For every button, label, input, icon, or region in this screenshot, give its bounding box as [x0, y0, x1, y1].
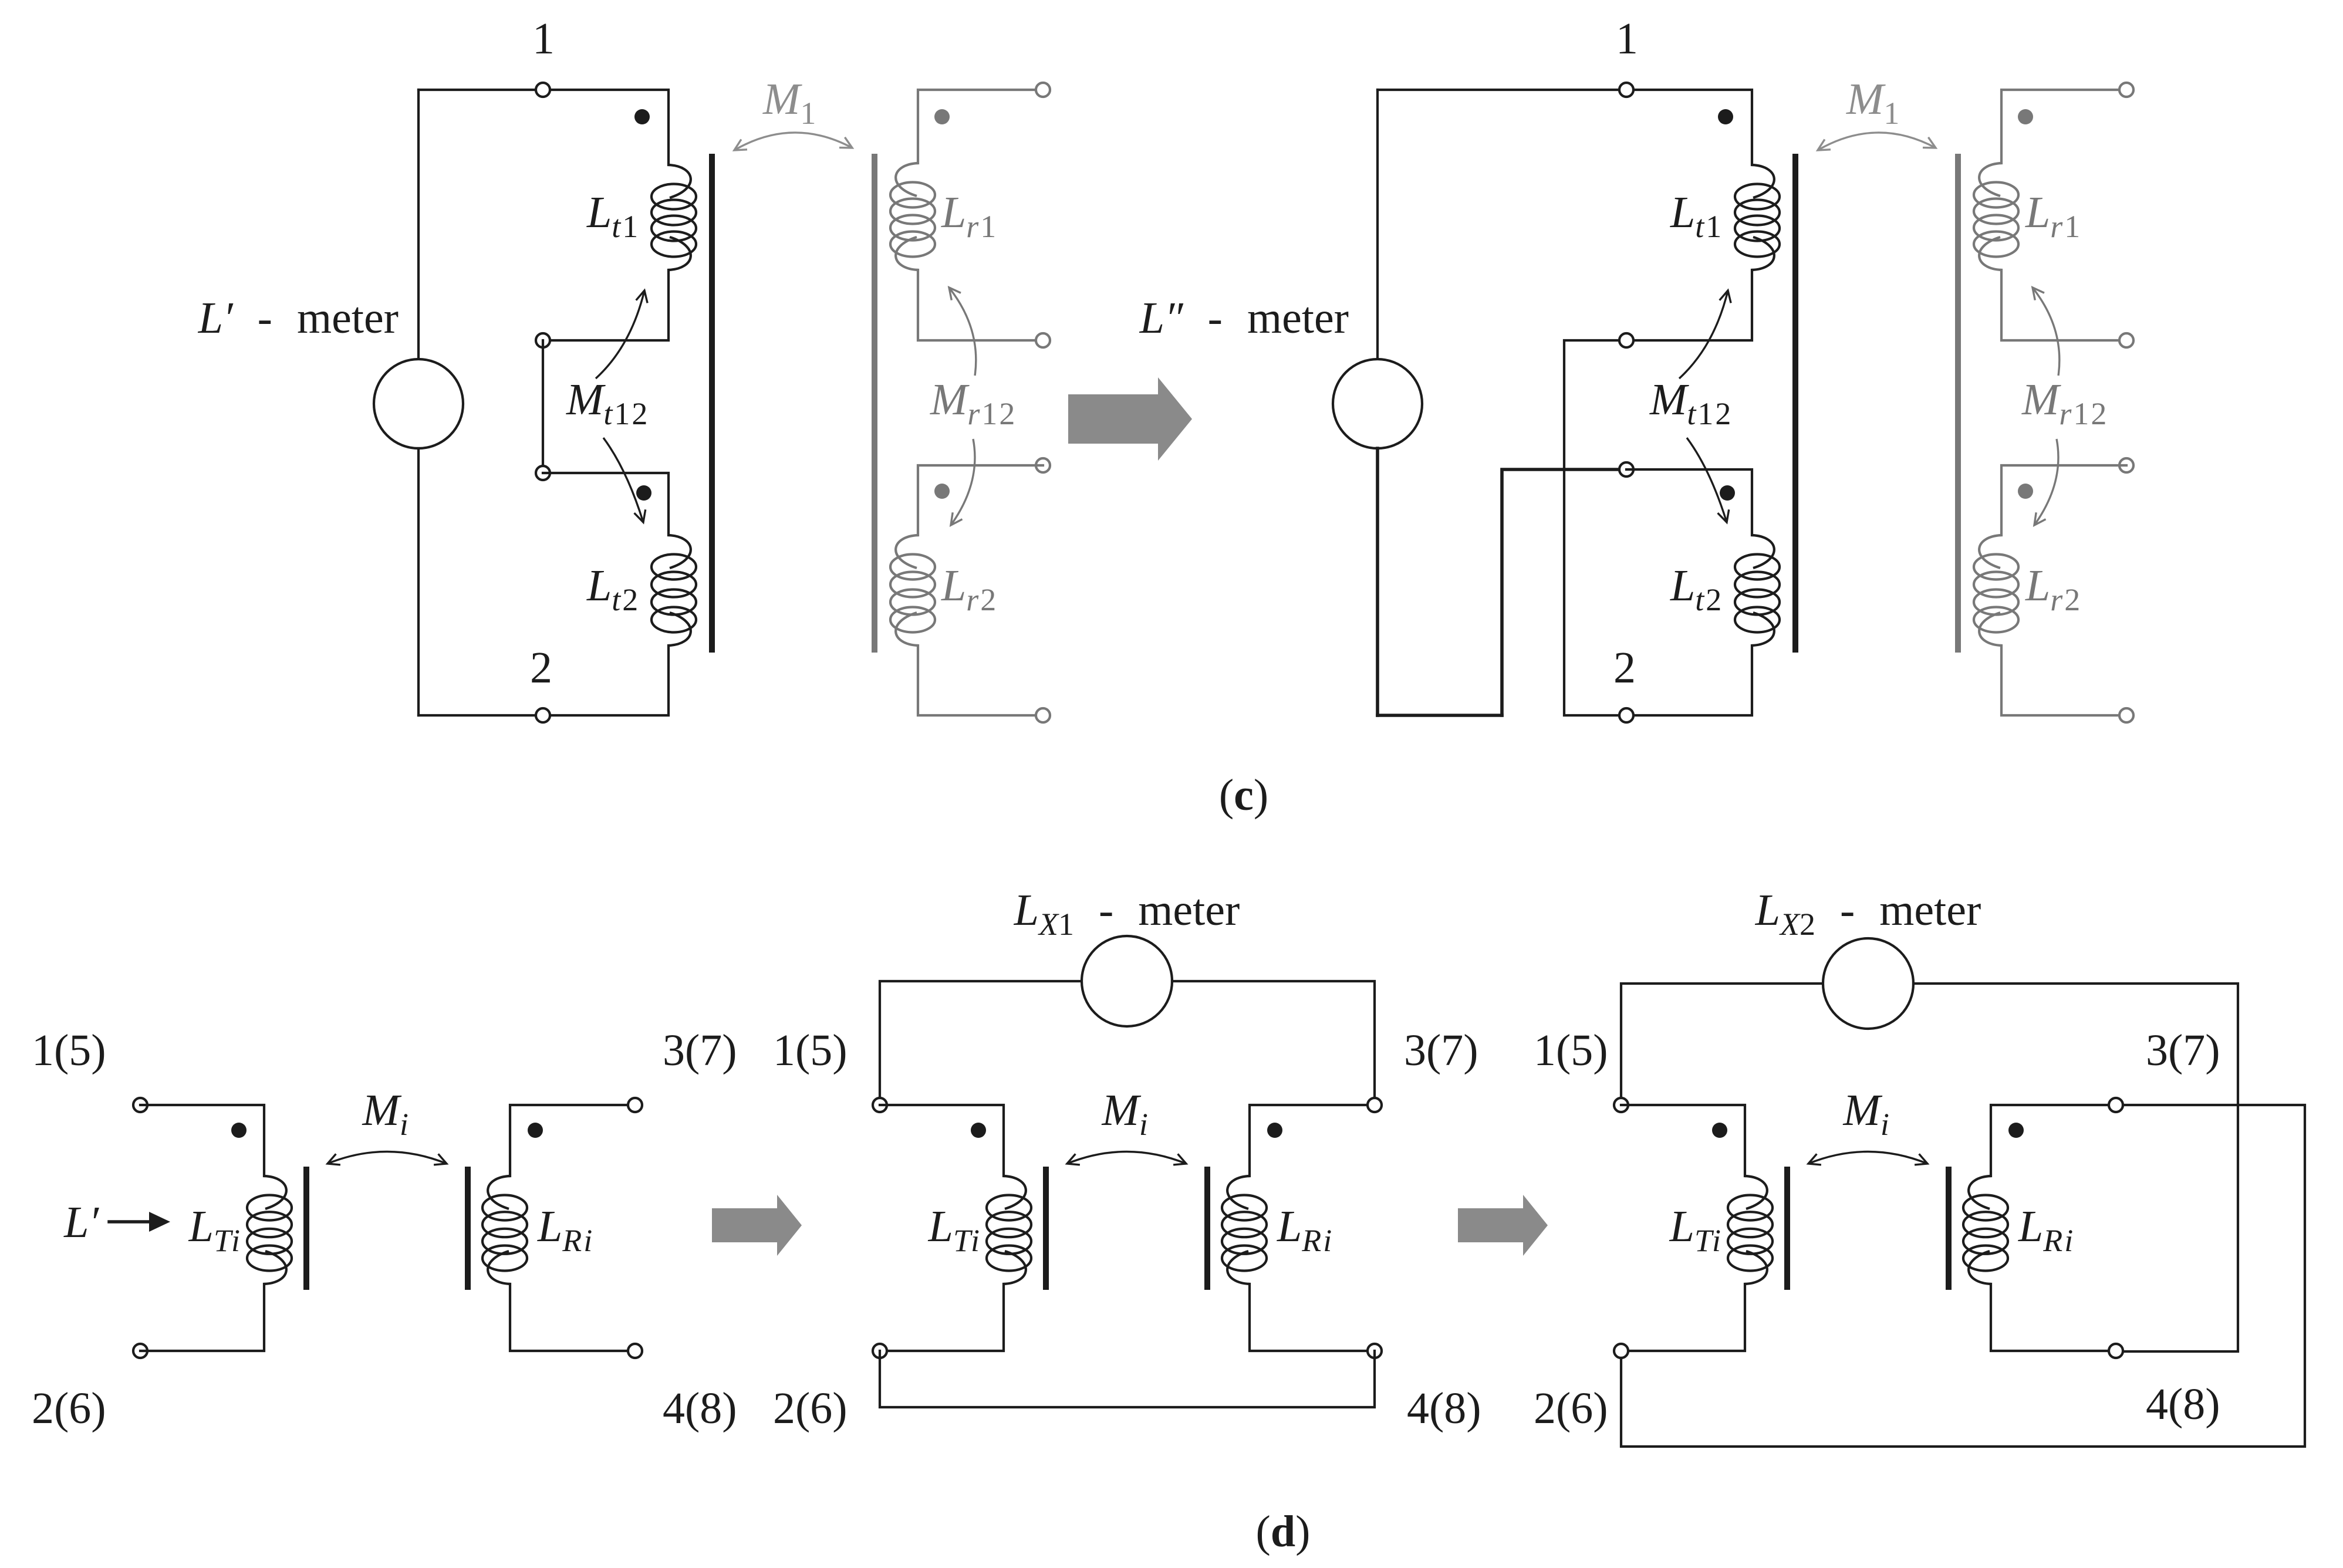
- dot Lt2 (c1): [636, 485, 651, 501]
- svg-text:2(6): 2(6): [773, 1384, 848, 1433]
- terminal 1(5) (d3): [1614, 1098, 1628, 1112]
- terminal 1 (c2): [1619, 83, 1633, 97]
- dot LTi (d2): [971, 1123, 986, 1138]
- wire d3 LRi bottom to terminal 4: [1991, 1284, 2116, 1351]
- wire c1 left meter branch upper: [417, 90, 420, 359]
- inductor LRi (d2): [1222, 1176, 1267, 1284]
- receiver terminal c (c2): [2119, 458, 2133, 472]
- wire c2 middle terminal to Lt2 top: [1626, 469, 1752, 535]
- core bar T (d1): [303, 1167, 309, 1290]
- arrow Mt12 to Lt2 (c2): [1687, 438, 1729, 522]
- wire c2 top (terminal 1 to Lt1): [1378, 90, 1752, 165]
- wire d3 LRi to terminal 3: [1991, 1105, 2116, 1176]
- core bar transmitter (c2): [1792, 154, 1798, 653]
- wire c2 left meter branch upper: [1376, 90, 1379, 359]
- core bar receiver (c1): [872, 154, 877, 653]
- dot Lt1 (c1): [634, 109, 650, 124]
- wire d2 LRi to terminal 3: [1250, 1105, 1375, 1176]
- wire c2 receiver Lr2 bottom: [2001, 646, 2126, 715]
- terminal 2(6) (d2): [873, 1344, 887, 1358]
- arrow M1 coupling (c1): [734, 133, 852, 150]
- inductor Lt2 (c1): [651, 535, 696, 646]
- dot Lr2 (c2): [2018, 484, 2033, 499]
- block arrow (d) 2: [1458, 1195, 1548, 1256]
- dot Lt1 (c2): [1718, 109, 1733, 124]
- inductor Lt1 (c2): [1735, 165, 1780, 270]
- wire d2 terminal 1 to LTi: [880, 1105, 1004, 1176]
- terminal 3(7) (d1): [628, 1098, 642, 1112]
- wire d2 meter top left: [880, 981, 1082, 1105]
- arrow L' shaft (d1): [109, 1220, 151, 1224]
- wire c1 Lt1 bottom to middle terminal: [543, 270, 669, 340]
- arrow Mi coupling (d1): [328, 1152, 447, 1165]
- terminal 1(5) (d2): [873, 1098, 887, 1112]
- terminal Lt2+ (c2): [1619, 462, 1633, 477]
- wire c1 receiver Lr2 bottom: [918, 646, 1043, 715]
- receiver terminal c (c1): [1036, 458, 1050, 472]
- wire d3 meter top right: [1913, 984, 2238, 1351]
- svg-text:2: 2: [1613, 643, 1636, 692]
- svg-text:(c): (c): [1219, 771, 1268, 820]
- core bar receiver (c2): [1955, 154, 1961, 653]
- terminal 2 (c1): [536, 708, 550, 722]
- arrow Mr12 to Lr1 (c2): [2033, 288, 2060, 376]
- inductor Lr1 (c2): [1974, 163, 2018, 270]
- wire c1 top (terminal 1 to Lt1): [418, 90, 669, 165]
- inductor Lt1 (c1): [651, 165, 696, 270]
- wire c2 Lt1 bottom to middle terminal: [1626, 270, 1752, 340]
- arrow M1 coupling (c2): [1818, 133, 1936, 150]
- dot LTi (d3): [1712, 1123, 1727, 1138]
- receiver terminal a (c2): [2119, 83, 2133, 97]
- terminal 1 (c1): [536, 83, 550, 97]
- core bar T (d2): [1043, 1167, 1049, 1290]
- wire c2 receiver Lr1 top: [2001, 90, 2126, 163]
- svg-text:1: 1: [532, 14, 555, 63]
- wire c2 middle terminal to lower-left riser: [1564, 340, 1626, 715]
- receiver terminal b (c1): [1036, 333, 1050, 347]
- arrow L' head (d1): [149, 1212, 170, 1232]
- svg-text:L′-meter: L′-meter: [198, 293, 399, 343]
- wire c2 Lt2 bottom to terminal 2: [1626, 646, 1752, 715]
- svg-text:1(5): 1(5): [773, 1026, 848, 1075]
- inductor Lr2 (c2): [1974, 535, 2018, 646]
- core bar R (d1): [465, 1167, 471, 1290]
- wire c1 middle series link: [542, 340, 544, 473]
- svg-text:4(8): 4(8): [2146, 1380, 2220, 1429]
- wire c2 receiver Lr1 bottom: [2001, 270, 2126, 340]
- wire c2 left meter branch lower (bold): [1376, 448, 1379, 715]
- dot Lt2 (c2): [1720, 485, 1735, 501]
- wire c1 middle terminal to Lt2 top: [543, 473, 669, 535]
- wire d3 crossing 3(7) to 2(6): [1621, 1105, 2305, 1447]
- wire c2 bottom left to crossing (bold): [1378, 714, 1502, 717]
- wire d3 LTi bottom to terminal 2: [1621, 1284, 1745, 1351]
- wire d2 LRi bottom to terminal 4: [1250, 1284, 1375, 1351]
- meter L' (c1): [374, 359, 463, 448]
- wire d2 LTi bottom to terminal 2: [880, 1284, 1004, 1351]
- arrow Mr12 to Lr2 (c2): [2034, 439, 2058, 525]
- dot LRi (d3): [2008, 1123, 2024, 1138]
- receiver terminal b (c2): [2119, 333, 2133, 347]
- terminal 2(6) (d1): [133, 1344, 147, 1358]
- wire d1 LRi bottom to terminal 4: [510, 1284, 635, 1351]
- wire c2 receiver Lr2 top: [2001, 465, 2126, 535]
- arrow Mt12 to Lt1 (c1): [596, 290, 647, 379]
- svg-text:3(7): 3(7): [663, 1026, 737, 1075]
- inductor Lr1 (c1): [890, 163, 935, 270]
- terminal Lt1- (c2): [1619, 333, 1633, 347]
- terminal 4(8) (d2): [1368, 1344, 1382, 1358]
- dot LRi (d2): [1267, 1123, 1282, 1138]
- svg-text:1(5): 1(5): [1534, 1026, 1608, 1075]
- wire d1 LTi bottom to terminal 2: [140, 1284, 264, 1351]
- inductor Lt2 (c2): [1735, 535, 1780, 646]
- terminal Lt1- (c1): [536, 333, 550, 347]
- svg-text:2(6): 2(6): [32, 1384, 106, 1433]
- meter LX1 (d2): [1082, 936, 1172, 1026]
- svg-text:3(7): 3(7): [2146, 1026, 2220, 1075]
- terminal 4(8) (d1): [628, 1344, 642, 1358]
- receiver terminal d (c2): [2119, 708, 2133, 722]
- wire d3 meter top left: [1621, 984, 1823, 1105]
- svg-text:L′: L′: [63, 1198, 99, 1247]
- dot Lr1 (c1): [934, 109, 950, 124]
- terminal 2 (c2): [1619, 708, 1633, 722]
- inductor LRi (d1): [482, 1176, 527, 1284]
- terminal 3(7) (d3): [2109, 1098, 2123, 1112]
- block arrow (d) 1: [712, 1195, 802, 1256]
- wire c1 receiver Lr2 top: [918, 465, 1043, 535]
- arrow Mi coupling (d2): [1067, 1152, 1186, 1165]
- wire c1 receiver Lr1 bottom: [918, 270, 1043, 340]
- dot LRi (d1): [528, 1123, 543, 1138]
- svg-text:1(5): 1(5): [32, 1026, 106, 1075]
- arrow Mt12 to Lt1 (c2): [1679, 290, 1731, 379]
- svg-text:4(8): 4(8): [663, 1384, 737, 1433]
- core bar R (d3): [1946, 1167, 1952, 1290]
- arrow Mr12 to Lr2 (c1): [951, 439, 975, 525]
- meter L'' (c2): [1333, 359, 1422, 448]
- wire c2 crossing riser (bold): [1502, 469, 1619, 715]
- dot LTi (d1): [231, 1123, 247, 1138]
- inductor LTi (d2): [987, 1176, 1031, 1284]
- block arrow (c): [1068, 377, 1192, 461]
- wire d3 terminal 1 to LTi: [1621, 1105, 1745, 1176]
- core bar transmitter (c1): [709, 154, 715, 653]
- wire c1 receiver Lr1 top: [918, 90, 1043, 163]
- wire d2 bottom link 2(6)-4(8): [880, 1351, 1375, 1407]
- terminal 2(6) (d3): [1614, 1344, 1628, 1358]
- wire d1 terminal 1 to LTi: [140, 1105, 264, 1176]
- inductor Lr2 (c1): [890, 535, 935, 646]
- receiver terminal d (c1): [1036, 708, 1050, 722]
- wire c1 left meter branch lower: [417, 448, 420, 715]
- core bar R (d2): [1204, 1167, 1210, 1290]
- terminal 1(5) (d1): [133, 1098, 147, 1112]
- wire c1 bottom (terminal 2 to Lt2): [418, 646, 669, 715]
- svg-text:1: 1: [1616, 14, 1638, 63]
- wire d2 meter top right: [1172, 981, 1375, 1105]
- arrow Mi coupling (d3): [1808, 1152, 1927, 1165]
- svg-text:4(8): 4(8): [1407, 1384, 1481, 1433]
- arrow Mr12 to Lr1 (c1): [949, 288, 976, 376]
- svg-text:2: 2: [530, 643, 552, 692]
- inductor LRi (d3): [1963, 1176, 2008, 1284]
- inductor LTi (d1): [247, 1176, 292, 1284]
- dot Lr1 (c2): [2018, 109, 2033, 124]
- terminal Lt2+ (c1): [536, 466, 550, 480]
- dot Lr2 (c1): [934, 484, 950, 499]
- inductor LTi (d3): [1728, 1176, 1773, 1284]
- svg-text:2(6): 2(6): [1534, 1384, 1608, 1433]
- svg-text:3(7): 3(7): [1404, 1026, 1478, 1075]
- wire d1 LRi to terminal 3: [510, 1105, 635, 1176]
- terminal 4(8) (d3): [2109, 1344, 2123, 1358]
- terminal 3(7) (d2): [1368, 1098, 1382, 1112]
- arrow Mt12 to Lt2 (c1): [603, 438, 646, 522]
- receiver terminal a (c1): [1036, 83, 1050, 97]
- core bar T (d3): [1784, 1167, 1790, 1290]
- meter LX2 (d3): [1823, 938, 1913, 1029]
- svg-text:(d): (d): [1256, 1507, 1311, 1556]
